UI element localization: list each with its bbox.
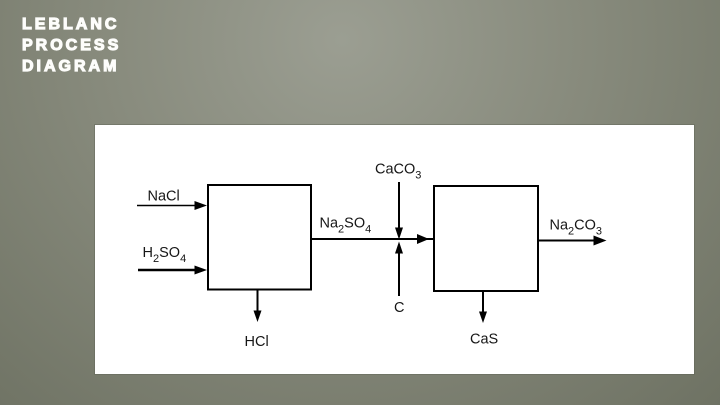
arrowhead C up bbox=[395, 242, 403, 254]
svg-text:Na2SO4: Na2SO4 bbox=[320, 216, 372, 236]
slide title bbox=[22, 14, 121, 77]
wire CaCO3 down line bbox=[398, 182, 400, 230]
arrowhead Na2SO4 into box 2 bbox=[417, 234, 429, 244]
arrowhead Na2CO3 right bbox=[594, 236, 607, 246]
svg-text:CaS: CaS bbox=[470, 332, 498, 348]
reactor box 2 (black ash furnace) bbox=[434, 186, 538, 291]
wire Na2SO4 transfer line bbox=[311, 238, 433, 240]
wire HCl out line bbox=[257, 290, 259, 314]
reactor box 1 (salt cake furnace) bbox=[208, 185, 311, 290]
arrowhead H2SO4 bbox=[195, 266, 208, 275]
wire CaS out line bbox=[482, 291, 484, 315]
svg-text:Na2CO3: Na2CO3 bbox=[550, 218, 603, 238]
wire H2SO4 feed line bbox=[138, 269, 197, 271]
arrowhead NaCl bbox=[195, 201, 208, 210]
svg-text:H2SO4: H2SO4 bbox=[143, 245, 187, 265]
arrowhead HCl down bbox=[254, 311, 262, 323]
svg-text:C: C bbox=[394, 300, 404, 316]
arrowhead CaCO3 down bbox=[395, 228, 403, 240]
white diagram panel bbox=[95, 125, 694, 374]
svg-text:CaCO3: CaCO3 bbox=[375, 162, 421, 182]
arrowhead CaS down bbox=[479, 312, 487, 324]
wire NaCl feed line bbox=[137, 205, 197, 207]
wire C up line bbox=[398, 250, 400, 296]
svg-text:NaCl: NaCl bbox=[148, 189, 180, 205]
svg-text:HCl: HCl bbox=[245, 334, 269, 350]
wire Na2CO3 out line bbox=[539, 240, 598, 242]
